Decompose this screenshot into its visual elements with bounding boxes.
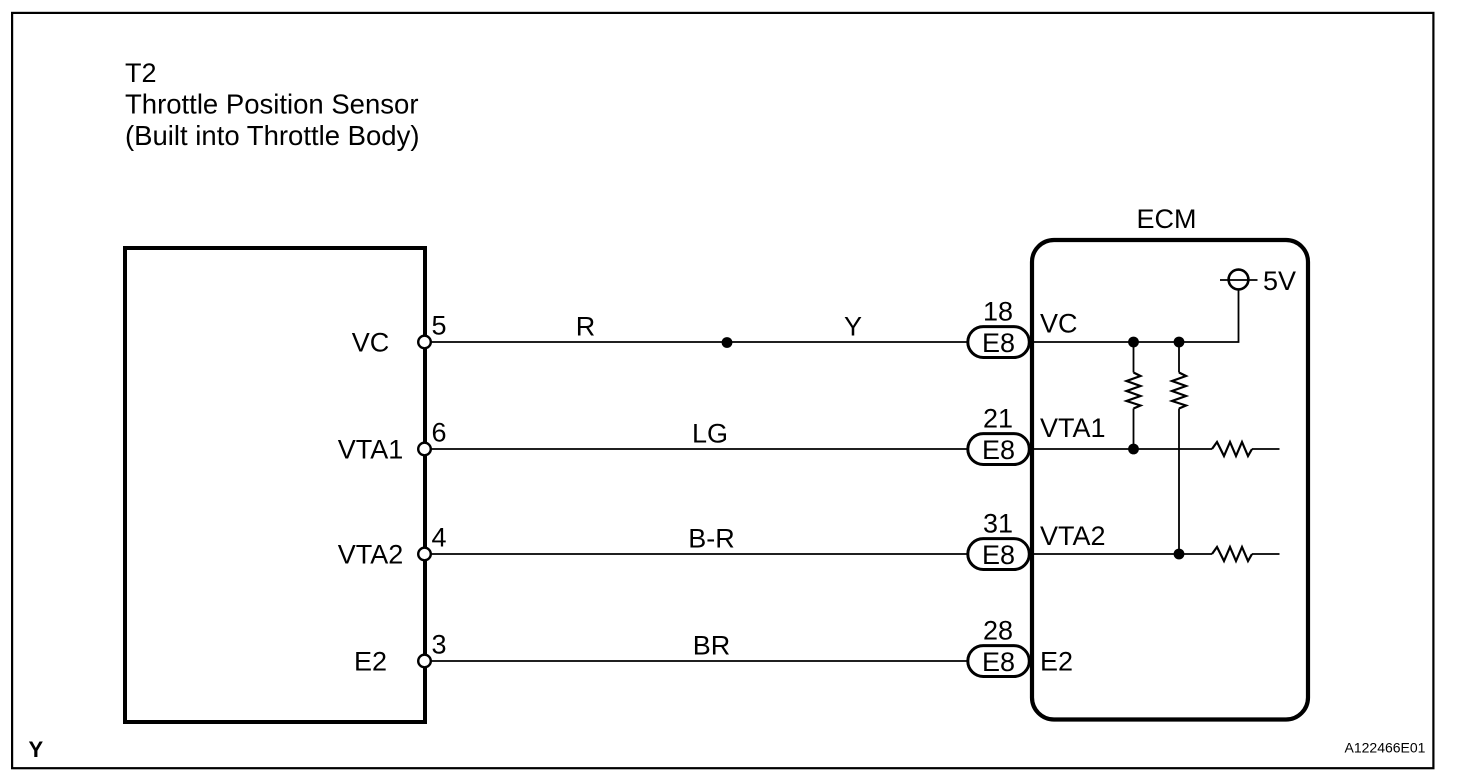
wire VTA2 (sensor to E8) <box>430 553 967 555</box>
wire VTA2 after R4 <box>1252 553 1280 555</box>
svg-text:4: 4 <box>432 523 447 553</box>
node B junction dot VC/R2 <box>1174 337 1185 348</box>
terminal 4 VTA2 <box>418 548 431 561</box>
svg-text:A122466E01: A122466E01 <box>1345 740 1426 756</box>
ECM box <box>1032 240 1308 720</box>
5V supply terminal <box>1220 270 1258 290</box>
svg-text:Y: Y <box>844 312 862 342</box>
svg-text:28: 28 <box>983 616 1013 646</box>
svg-text:E8: E8 <box>982 435 1015 465</box>
svg-text:LG: LG <box>692 419 728 449</box>
node junction dot R1/VTA1 <box>1128 444 1139 455</box>
svg-text:Y: Y <box>29 737 44 762</box>
node A junction dot VC/R1 <box>1128 337 1139 348</box>
svg-text:5V: 5V <box>1263 266 1296 296</box>
svg-text:E2: E2 <box>354 647 387 677</box>
connector E8 pin 31 oval <box>968 539 1030 570</box>
connector E8 pin 18 oval <box>968 327 1030 358</box>
sensor T2 body box <box>125 248 425 722</box>
svg-text:3: 3 <box>432 630 447 660</box>
terminal 6 VTA1 <box>418 443 431 456</box>
wire E2 (sensor to E8) <box>430 660 967 662</box>
svg-text:VTA2: VTA2 <box>338 540 404 570</box>
svg-text:6: 6 <box>432 418 447 448</box>
svg-text:ECM: ECM <box>1137 204 1197 234</box>
svg-text:VTA1: VTA1 <box>338 435 404 465</box>
splice node on VC wire <box>722 337 733 348</box>
svg-text:VTA2: VTA2 <box>1040 521 1106 551</box>
svg-text:T2: T2 <box>125 58 157 88</box>
wire VTA1 inside ECM <box>1034 448 1212 450</box>
svg-text:5: 5 <box>432 311 447 341</box>
svg-text:21: 21 <box>983 404 1013 434</box>
svg-text:E8: E8 <box>982 647 1015 677</box>
wire VTA1 after R3 <box>1252 448 1280 450</box>
wire VC inside ECM <box>1034 290 1239 342</box>
svg-text:VTA1: VTA1 <box>1040 413 1106 443</box>
svg-text:31: 31 <box>983 509 1013 539</box>
svg-text:Throttle Position Sensor: Throttle Position Sensor <box>125 89 418 120</box>
svg-text:E8: E8 <box>982 540 1015 570</box>
resistor R4 (VTA2 series) <box>1212 547 1252 561</box>
connector E8 pin 21 oval <box>968 434 1030 465</box>
svg-text:VC: VC <box>1040 309 1078 339</box>
svg-text:E8: E8 <box>982 328 1015 358</box>
svg-text:18: 18 <box>983 297 1013 327</box>
wire VTA2 inside ECM <box>1034 553 1212 555</box>
svg-text:B-R: B-R <box>688 524 735 554</box>
svg-text:BR: BR <box>693 631 731 661</box>
terminal 5 VC <box>418 336 431 349</box>
svg-text:E2: E2 <box>1040 647 1073 677</box>
resistor R1 (pull-up to VTA1) <box>1127 342 1141 449</box>
resistor R2 (pull-up to VTA2) <box>1172 342 1186 554</box>
wire VC (sensor to E8) <box>430 341 967 343</box>
wire VTA1 (sensor to E8) <box>430 448 967 450</box>
svg-text:R: R <box>576 312 596 342</box>
terminal 3 E2 <box>418 655 431 668</box>
node junction dot R2/VTA2 <box>1174 549 1185 560</box>
connector E8 pin 28 oval <box>968 646 1030 677</box>
svg-text:(Built into Throttle Body): (Built into Throttle Body) <box>125 120 419 151</box>
svg-text:VC: VC <box>352 328 390 358</box>
resistor R3 (VTA1 series) <box>1212 442 1252 456</box>
